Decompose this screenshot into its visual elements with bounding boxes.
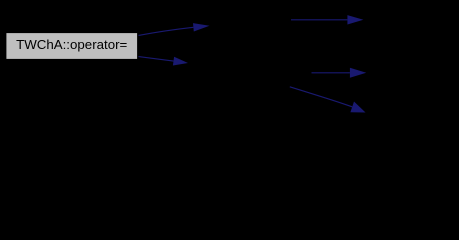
edge 4: middle node to mid-right hidden node (wire) xyxy=(312,72,350,74)
edge 4 arrowhead xyxy=(350,68,366,78)
edge 5: middle node to bottom-right hidden node (wire) xyxy=(290,87,352,107)
call graph diagram xyxy=(0,0,459,147)
edge 2 arrowhead xyxy=(173,57,188,66)
edge 1: operator= to upper hidden node (wire) xyxy=(139,27,194,35)
edge 1 arrowhead xyxy=(193,23,210,31)
svg-text:TWChA::operator=: TWChA::operator= xyxy=(16,37,127,52)
edge 3: upper node to top-right hidden node (wire) xyxy=(291,19,347,21)
node TWChA::operator= (box) xyxy=(6,33,137,59)
edge 3 arrowhead xyxy=(347,15,363,24)
edge 2: operator= to middle hidden node (wire) xyxy=(139,57,174,62)
edge 5 arrowhead xyxy=(350,102,365,113)
